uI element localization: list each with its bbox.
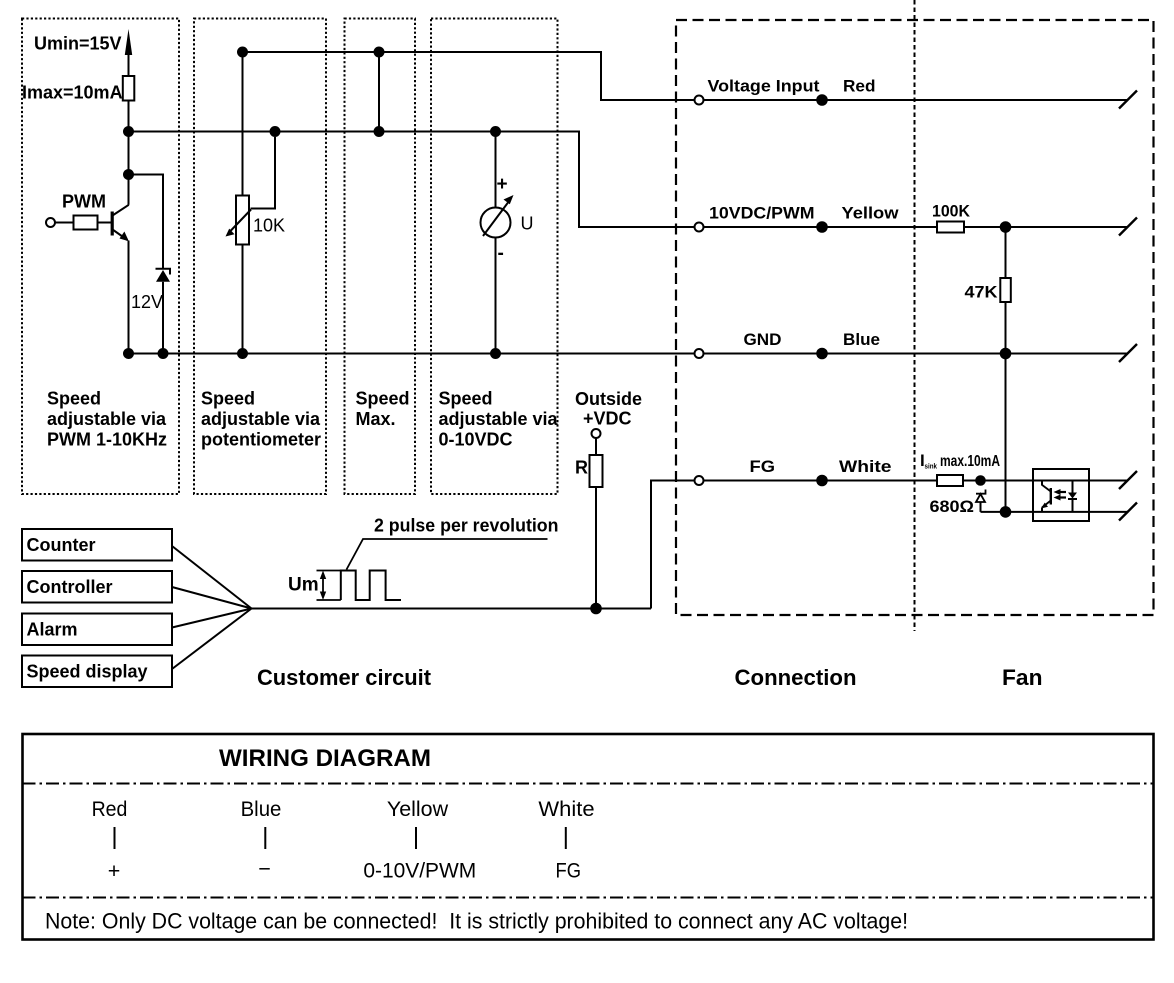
wire: 10VDC/PWM row right of 100K [964, 226, 1128, 228]
svg-text:PWM: PWM [62, 192, 106, 212]
svg-text:Connection: Connection [735, 665, 857, 690]
node: voltmeter top on wire B [490, 126, 501, 137]
svg-text:White: White [538, 797, 594, 821]
node: lower rail junction with 47K branch [1000, 506, 1012, 518]
table divider 2 (dash-dot) [23, 897, 1154, 899]
svg-text:10VDC/PWM: 10VDC/PWM [709, 204, 815, 223]
svg-text:680Ω: 680Ω [930, 497, 975, 516]
svg-text:White: White [839, 457, 892, 476]
opto phototransistor [1041, 481, 1051, 512]
wire: voltmeter branch top [495, 132, 497, 208]
svg-text:100K: 100K [932, 202, 971, 221]
leader line to pulse [347, 539, 548, 570]
svg-text:+: + [497, 174, 508, 195]
terminal: FG [695, 476, 704, 485]
resistor: base resistor [74, 216, 98, 230]
wire-break slash GND row [1119, 344, 1137, 362]
tie line Blue [264, 827, 266, 849]
wire: voltmeter branch bottom [495, 238, 497, 354]
svg-text:0-10VDC: 0-10VDC [439, 430, 513, 450]
svg-text:Speed: Speed [356, 389, 410, 409]
tie line White [565, 827, 567, 849]
wire: opto lower rail [981, 511, 1128, 513]
box Alarm [22, 614, 172, 646]
node: box3 bottom on wire B [374, 126, 385, 137]
resistor 680R [937, 475, 963, 486]
svg-text:47K: 47K [965, 283, 999, 302]
wire-break slash FG row [1119, 471, 1137, 489]
resistor R (pull-up FG) [590, 455, 603, 487]
wire B: 10V/PWM rail to 10VDC/PWM terminal [129, 132, 695, 228]
wire: FG row right of 680R [963, 480, 1128, 482]
svg-text:Um: Um [288, 575, 319, 596]
label box2: Speed adjustable via potentiometer [201, 389, 321, 450]
terminal: 10VDC/PWM [695, 223, 704, 232]
label box3: Speed Max. [356, 389, 410, 430]
svg-text:Customer circuit: Customer circuit [257, 665, 432, 690]
dashed function box: Speed adjustable via potentiometer [194, 19, 326, 495]
svg-text:adjustable via: adjustable via [47, 409, 167, 429]
svg-text:12V: 12V [131, 292, 163, 312]
svg-text:potentiometer: potentiometer [201, 430, 321, 450]
wire A: +15V rail to Voltage Input [243, 52, 695, 100]
node: box3 top on wire A [374, 47, 385, 58]
svg-text:sink: sink [925, 462, 938, 471]
wire: 10VDC/PWM row left of 100K [704, 226, 938, 228]
wire: GND row [704, 353, 1128, 355]
svg-text:+: + [108, 859, 121, 883]
svg-text:Outside: Outside [575, 389, 642, 409]
dashed connection box [676, 20, 1154, 615]
svg-text:Max.: Max. [356, 409, 396, 429]
label Outside +VDC [575, 389, 642, 429]
wire: Alarm to node [172, 609, 252, 628]
dotted divider line connection/fan [914, 0, 916, 631]
wire: emitter rail x128 down to GND [128, 241, 130, 354]
optocoupler U1 box [1033, 469, 1089, 521]
label box1: Speed adjustable via PWM 1-10KHz [47, 389, 167, 450]
wire: Controller to node [172, 587, 252, 609]
svg-text:10K: 10K [253, 216, 285, 236]
zener diode (FG clamp) [976, 490, 986, 512]
wire-break slash Voltage row [1119, 91, 1137, 109]
svg-text:Alarm: Alarm [27, 620, 78, 640]
node: R junction on FG feed wire [590, 603, 602, 615]
svg-text:Speed: Speed [201, 389, 255, 409]
zener diode D1 12V [156, 269, 171, 354]
voltmeter U (0-10VDC source) [481, 195, 514, 238]
svg-text:Umin=15V: Umin=15V [34, 34, 122, 54]
node: wiper junction on wire B [270, 126, 281, 137]
opto LED [1068, 481, 1077, 512]
potentiometer wiper arrow [226, 137, 276, 237]
Um arrow (double headed) [320, 571, 326, 601]
opto light arrows [1054, 489, 1067, 501]
wire: GND-to-opto rail [1005, 354, 1007, 512]
svg-text:2 pulse per revolution: 2 pulse per revolution [374, 516, 559, 536]
wire: FG signal line [252, 608, 652, 610]
svg-text:Speed: Speed [47, 389, 101, 409]
tie line Red [114, 827, 116, 849]
svg-text:max.10mA: max.10mA [940, 453, 1000, 470]
wire: R to FG wire [595, 487, 597, 609]
node: junction x128 zener branch [123, 169, 134, 180]
transistor Q1 (NPN) [112, 205, 129, 241]
node: FG zener junction [975, 475, 986, 486]
svg-text:Voltage Input: Voltage Input [708, 77, 820, 96]
node: junction x128 on GND wire [123, 348, 134, 359]
pulse waveform (2 pulses) [341, 571, 401, 601]
svg-text:R: R [575, 458, 588, 478]
svg-text:Blue: Blue [241, 797, 282, 821]
node: pot bottom on GND wire [237, 348, 248, 359]
node: zener anode on GND wire [158, 348, 169, 359]
svg-text:PWM 1-10KHz: PWM 1-10KHz [47, 430, 167, 450]
wire: collector rail x128 [128, 101, 130, 205]
wire-break slash lower rail [1119, 503, 1137, 521]
svg-text:Red: Red [92, 797, 128, 821]
node: pot top on wire A [237, 47, 248, 58]
potentiometer RP1 10K body [236, 52, 249, 354]
wire: 47K branch upper [1005, 227, 1007, 278]
svg-text:Speed: Speed [439, 389, 493, 409]
dashed function box: Speed Max. [345, 19, 416, 495]
svg-text:FG: FG [556, 859, 582, 883]
svg-text:Speed display: Speed display [27, 662, 148, 682]
wire: 47K branch lower to GND row [1005, 302, 1007, 354]
tie line Yellow [415, 827, 417, 849]
supply arrow Umin [125, 29, 132, 76]
wiring diagram table frame [23, 734, 1154, 940]
wire: branch to zener [129, 175, 164, 269]
box Controller [22, 571, 172, 603]
wire: VDC terminal to resistor R [595, 438, 597, 455]
svg-text:adjustable via: adjustable via [439, 409, 559, 429]
svg-text:-: - [498, 243, 504, 264]
node: Voltage Input wire dot [816, 94, 828, 106]
svg-text:Red: Red [843, 77, 876, 96]
wire: speed-max link (box3) [378, 52, 380, 132]
svg-text:+VDC: +VDC [583, 409, 632, 429]
wire: PWM input to base resistor [55, 222, 74, 224]
wire: FG row left of 680R [704, 480, 938, 482]
dashed function box: Speed adjustable via 0-10VDC [431, 19, 558, 495]
terminal: GND [695, 349, 704, 358]
wire: Voltage Input row [704, 99, 1128, 101]
Um reference lines [317, 571, 341, 601]
svg-text:Blue: Blue [843, 330, 880, 349]
svg-text:Note: Only DC voltage can be c: Note: Only DC voltage can be connected! … [45, 909, 908, 934]
svg-text:Yellow: Yellow [387, 797, 449, 821]
wire: FG feed from customer circuit [651, 481, 695, 609]
wire: Counter to node [172, 546, 252, 609]
svg-text:Counter: Counter [27, 535, 96, 555]
node: junction x128 on wire B [123, 126, 134, 137]
dashed function box: Speed adjustable via PWM 1-10KHz [22, 19, 179, 495]
box Counter [22, 529, 172, 561]
label Isink max.10mA [920, 451, 1000, 471]
terminal: Voltage Input [695, 96, 704, 105]
svg-text:adjustable via: adjustable via [201, 409, 321, 429]
resistor Imax (pull-up) [123, 76, 135, 101]
node: FG wire dot [816, 475, 828, 487]
svg-text:FG: FG [750, 457, 776, 476]
wire C: GND rail to GND terminal [129, 353, 695, 355]
svg-text:Imax=10mA: Imax=10mA [22, 83, 123, 103]
wire-break slash PWM row [1119, 218, 1137, 236]
terminal: outside VDC [592, 429, 601, 438]
svg-text:U: U [521, 214, 534, 234]
wire: Speed display to node [172, 609, 252, 670]
node: GND wire dot [816, 348, 828, 360]
PWM input terminal [46, 218, 55, 227]
svg-text:Yellow: Yellow [842, 204, 900, 223]
svg-text:0-10V/PWM: 0-10V/PWM [363, 859, 476, 883]
table divider 1 (dash-dot) [23, 783, 1154, 785]
node: 47K top junction [1000, 221, 1012, 233]
resistor 100K [937, 222, 964, 233]
svg-text:−: − [258, 857, 271, 881]
wire: base resistor to transistor base [98, 222, 112, 224]
node: 10VDC/PWM wire dot [816, 221, 828, 233]
node: 47K bottom on GND row [1000, 348, 1012, 360]
svg-text:Fan: Fan [1002, 665, 1043, 690]
label box4: Speed adjustable via 0-10VDC [439, 389, 559, 450]
box Speed display [22, 656, 172, 688]
resistor 47K [1000, 278, 1011, 302]
svg-text:GND: GND [744, 330, 782, 349]
node: voltmeter bottom on GND wire [490, 348, 501, 359]
svg-text:Controller: Controller [27, 577, 113, 597]
svg-text:WIRING DIAGRAM: WIRING DIAGRAM [219, 745, 431, 772]
